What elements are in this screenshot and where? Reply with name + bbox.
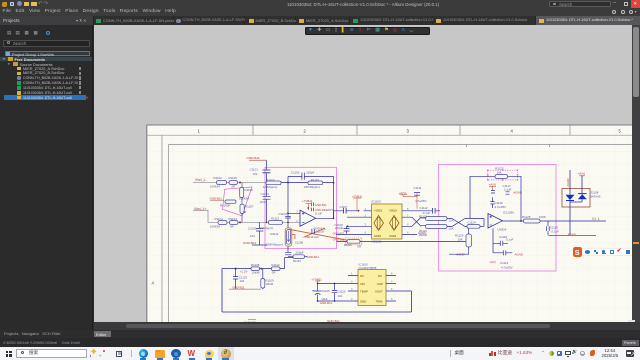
svg-text:-A(V): -A(V): [489, 260, 496, 264]
svg-text:R1114: R1114: [293, 259, 301, 263]
resistor R1129 vertical: [466, 234, 472, 247]
wire R1116 to R1119: [337, 241, 467, 243]
svg-text:R1113: R1113: [271, 217, 279, 221]
svg-text:+A(V): +A(V): [578, 172, 586, 176]
svg-text:4.7u/25V: 4.7u/25V: [501, 265, 513, 269]
resistor R1112: [271, 267, 280, 271]
svg-text:AGND: AGND: [515, 252, 523, 256]
capacitor C1104: [285, 216, 290, 218]
svg-text:C1120: C1120: [337, 290, 345, 294]
svg-text:BAT54S: BAT54S: [590, 195, 601, 199]
capacitor decoupling pair at op-amp: [311, 203, 313, 212]
resistor R1101: [218, 221, 227, 225]
bottom hscrollbar: [94, 322, 640, 330]
svg-text:0R: 0R: [272, 270, 276, 274]
svg-text:1K/M(ppm): 1K/M(ppm): [259, 226, 273, 230]
resistor R1113: [269, 221, 283, 225]
svg-text:GND: GND: [360, 299, 366, 303]
svg-text:NC: NC: [360, 274, 364, 278]
capacitor C1106 bottom: [285, 252, 291, 255]
svg-text:0R: 0R: [232, 185, 236, 189]
junction node on minus rail: [239, 182, 241, 184]
svg-text:220pF: 220pF: [306, 170, 314, 174]
voltage reference IC1100: [358, 270, 386, 306]
svg-text:104: 104: [337, 294, 342, 298]
IC1103 pin stubs left: [336, 211, 372, 235]
wire Vhel_1- input rail: [193, 182, 267, 184]
wire op-amp2 output: [503, 220, 607, 222]
resistor R1125: [524, 219, 541, 223]
sheet border frame with ruler: [147, 125, 640, 322]
svg-text:100K/M(ppm): 100K/M(ppm): [266, 243, 284, 247]
svg-text:10k/M: 10k/M: [266, 282, 274, 286]
svg-text:R1101: R1101: [215, 217, 224, 221]
wire center vertical x266.5: [266, 161, 268, 223]
svg-text:AGND: AGND: [514, 190, 522, 194]
svg-text:0.1uF: 0.1uF: [552, 230, 560, 234]
svg-text:R1030P: R1030P: [220, 203, 231, 207]
resistor R1111 selected orange: [285, 228, 292, 246]
svg-text:IC1103: IC1103: [372, 200, 381, 204]
svg-text:100K: 100K: [539, 215, 546, 219]
resistor R1122: [426, 225, 448, 229]
svg-text:10K: 10K: [497, 170, 502, 174]
wire VOUT long net: [222, 269, 411, 312]
wire +7VB11 to VIN: [318, 284, 348, 302]
svg-text:R1106: R1106: [245, 188, 254, 192]
svg-text:TEMP: TEMP: [360, 290, 368, 294]
svg-text:4.7u/25V: 4.7u/25V: [415, 199, 427, 203]
svg-text:0R: 0R: [358, 244, 362, 248]
svg-text:GND-B11: GND-B11: [210, 196, 223, 200]
svg-text:R1115: R1115: [311, 178, 319, 182]
svg-text:TRIM: TRIM: [376, 299, 384, 303]
resistor R1121: [426, 217, 448, 221]
svg-text:0R: 0R: [230, 225, 234, 229]
floating toolbar: [305, 27, 430, 36]
svg-text:C1113: C1113: [500, 261, 508, 265]
resistor R1114: [293, 255, 305, 259]
svg-text:C1103: C1103: [261, 192, 270, 196]
svg-text:C1124: C1124: [468, 221, 476, 225]
op-amp U1101: [300, 210, 316, 226]
svg-text:R1105: R1105: [229, 176, 238, 180]
svg-text:NB1211: NB1211: [372, 240, 383, 244]
svg-text:100K/M: 100K/M: [239, 197, 250, 201]
capacitor C1119: [547, 221, 596, 235]
svg-text:GND1: GND1: [374, 234, 382, 238]
svg-text:VDD2+: VDD2+: [389, 209, 398, 213]
resistor R1106 vertical in trapezoid: [240, 188, 244, 198]
capacitor C1105 feedback: [288, 173, 334, 219]
capacitor C1108: [312, 229, 314, 234]
svg-text:C1104: C1104: [279, 212, 288, 216]
taskbar right side: [449, 350, 452, 357]
resistor R1105: [229, 181, 238, 185]
op-amp IC1105A: [488, 214, 503, 229]
svg-text:C1105: C1105: [291, 170, 300, 174]
svg-text:220pF: 220pF: [296, 250, 304, 254]
svg-text:NC: NC: [378, 274, 382, 278]
svg-text:R1122: R1122: [419, 229, 427, 233]
wire D1108 connections: [570, 170, 582, 235]
power port AGND under R1129: [449, 253, 457, 255]
svg-text:R1104: R1104: [229, 217, 238, 221]
resistor R1123: [495, 175, 508, 179]
IC1103 pin stubs right: [402, 211, 440, 235]
svg-text:C1111: C1111: [414, 186, 422, 190]
svg-text:R1107: R1107: [245, 204, 254, 208]
resistor R1116 selected: [345, 238, 362, 245]
dual diode D1108 BAT54S: [562, 189, 590, 208]
svg-text:R1121: R1121: [419, 214, 427, 218]
svg-text:0.1uF: 0.1uF: [312, 235, 319, 239]
resistor R1109 vertical: [261, 279, 265, 288]
svg-text:220pF: 220pF: [335, 226, 343, 230]
svg-text:20K/M(ppm): 20K/M(ppm): [304, 185, 320, 189]
svg-text:VOUT: VOUT: [375, 290, 383, 294]
svg-text:GND-B11: GND-B11: [320, 301, 333, 305]
screen overlay toolbar: [582, 249, 632, 255]
capacitor C1107 series: [344, 208, 347, 214]
document tabs: [94, 16, 173, 25]
isolation amplifier IC1103: [372, 204, 403, 239]
wire crossing selected orange: [289, 228, 350, 240]
wire X-cross into op-amp 2: [447, 219, 470, 227]
capacitor C1115 polarized: [314, 291, 322, 295]
svg-text:4.7u/25V: 4.7u/25V: [495, 205, 507, 209]
selection box around R1123: [488, 170, 518, 180]
tree: [5, 51, 90, 56]
svg-text:102: 102: [250, 234, 255, 238]
svg-text:1K/M(ppm): 1K/M(ppm): [263, 185, 277, 189]
svg-text:C1108: C1108: [316, 229, 325, 233]
svg-text:IC1105A: IC1105A: [503, 211, 514, 215]
right scrollbar: [632, 25, 640, 322]
capacitor C1102: [252, 222, 267, 245]
svg-text:R1111: R1111: [271, 232, 279, 236]
svg-text:10K: 10K: [449, 227, 454, 231]
svg-text:0.1uF: 0.1uF: [506, 238, 514, 242]
svg-text:C1102: C1102: [248, 226, 257, 230]
svg-text:0.1uF: 0.1uF: [315, 211, 322, 215]
svg-text:AGND: AGND: [568, 232, 576, 236]
svg-text:+A(V): +A(V): [489, 182, 497, 186]
svg-text:GP27: GP27: [326, 208, 334, 212]
svg-text:VIN: VIN: [360, 282, 365, 286]
resistor R1115: [308, 181, 323, 185]
status bar: [0, 338, 640, 347]
resistor R1107 vertical in trapezoid: [240, 204, 244, 213]
svg-text:GND-B11: GND-B11: [333, 237, 345, 241]
svg-text:C1115: C1115: [322, 289, 330, 293]
svg-text:100K/M: 100K/M: [210, 225, 221, 229]
magenta trapezoid region: [223, 187, 253, 216]
diode D1108-B: [578, 194, 587, 199]
svg-text:GND-B11: GND-B11: [315, 203, 327, 207]
diode D1108-A: [566, 195, 575, 200]
svg-text:Vhel_1+: Vhel_1+: [194, 207, 206, 211]
blanket box 1: [265, 167, 337, 248]
svg-text:10nF: 10nF: [260, 200, 267, 204]
svg-text:CLKRST0505: CLKRST0505: [359, 266, 377, 270]
svg-text:102: 102: [253, 172, 258, 176]
resistor R1108: [251, 267, 260, 271]
svg-text:100K/M: 100K/M: [210, 185, 221, 189]
resistor R1104: [230, 221, 239, 225]
svg-text:GND-B11: GND-B11: [247, 156, 260, 160]
IC1100 pin stubs: [348, 276, 396, 302]
svg-text:104: 104: [240, 279, 245, 283]
svg-text:GND-B11: GND-B11: [243, 241, 256, 245]
svg-text:Vhel_1-: Vhel_1-: [195, 178, 206, 182]
svg-text:R1102: R1102: [214, 176, 223, 180]
resistor R1102: [217, 181, 227, 185]
wire Vhel_1+ input rail: [193, 210, 300, 222]
wire feedback loop box2 with resistor R1123: [470, 176, 521, 226]
svg-text:R1110: R1110: [266, 178, 274, 182]
svg-text:0.1uF: 0.1uF: [504, 188, 512, 192]
junction node on plus rail: [239, 221, 241, 223]
wire op-amp output: [316, 211, 359, 219]
svg-text:C1101: C1101: [250, 168, 259, 172]
svg-text:10K: 10K: [458, 238, 463, 242]
taskbar app icons: [139, 349, 148, 358]
wire X-cross IC1103 to resistors: [412, 217, 426, 226]
svg-text:+1.2V: +1.2V: [240, 269, 248, 273]
svg-text:R1125: R1125: [522, 215, 531, 219]
svg-text:CHP: CHP: [377, 282, 383, 286]
svg-text:R1108: R1108: [251, 263, 260, 267]
svg-text:10k/M: 10k/M: [252, 270, 260, 274]
svg-text:V1_1: V1_1: [592, 217, 600, 221]
blanket box 2: [439, 165, 557, 272]
svg-text:C1106: C1106: [295, 240, 304, 244]
svg-text:C1112: C1112: [420, 206, 428, 210]
svg-text:R1112: R1112: [271, 263, 279, 267]
svg-text:GND-B11: GND-B11: [232, 285, 245, 289]
svg-text:+7VB11: +7VB11: [302, 235, 312, 239]
resistor R1103: [225, 200, 236, 203]
svg-text:+VDD1: +VDD1: [374, 209, 383, 213]
svg-text:+7VB11: +7VB11: [311, 277, 322, 281]
capacitor C1113 polarized: [493, 250, 512, 255]
svg-text:AGND: AGND: [566, 178, 570, 186]
svg-text:A: A: [152, 281, 155, 286]
bottom panel tabs: [0, 330, 640, 339]
capacitor C1103: [263, 196, 271, 199]
wire top rail to feedback: [281, 183, 334, 223]
svg-text:1R: 1R: [243, 210, 247, 214]
node junction output: [333, 217, 335, 219]
svg-text:C1107: C1107: [340, 205, 348, 209]
svg-text:+7VB11: +7VB11: [302, 199, 313, 203]
svg-text:R1116: R1116: [344, 243, 352, 247]
svg-text:+A(V): +A(V): [399, 191, 407, 195]
sheet: [147, 125, 640, 322]
capacitor C1120: [332, 290, 337, 292]
svg-text:GND2: GND2: [389, 234, 397, 238]
ruler zone numbers: [152, 128, 622, 285]
capacitor C1101: [263, 170, 271, 173]
svg-text:GND-B11: GND-B11: [333, 231, 345, 235]
resistor R1110: [266, 181, 281, 185]
svg-text:LM324: LM324: [498, 228, 507, 232]
svg-text:GND-B11: GND-B11: [307, 255, 320, 259]
